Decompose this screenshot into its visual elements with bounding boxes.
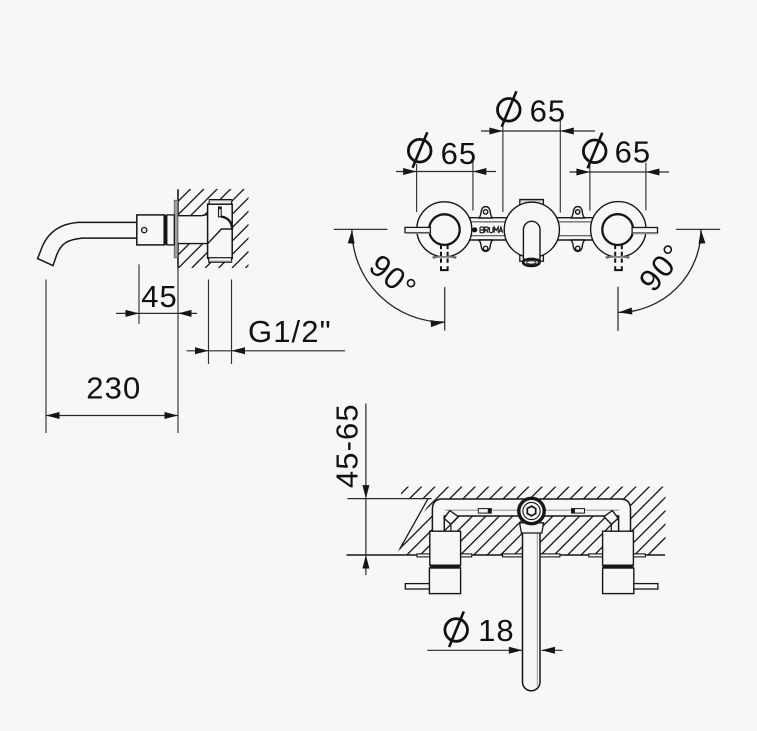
spout tube with curved outlet xyxy=(38,222,137,265)
tube mid gray line xyxy=(445,509,519,511)
dimension 230 xyxy=(46,415,178,417)
svg-text:G1/2": G1/2" xyxy=(248,314,332,349)
middle rosette circle xyxy=(504,202,559,257)
diameter symbol left xyxy=(408,132,431,168)
dimension G1/2" xyxy=(187,350,346,352)
union bracket trapezoid xyxy=(520,523,544,533)
left joint band xyxy=(430,565,461,568)
middle spout tube (front) xyxy=(523,221,540,261)
left clamp detail xyxy=(478,509,491,513)
right lever (plan) xyxy=(634,584,658,589)
set screw xyxy=(142,228,147,233)
right joint band xyxy=(603,565,634,568)
wall hatching below manifold (plan view) xyxy=(340,486,717,555)
diameter symbol 18 xyxy=(445,612,468,648)
block divider (thick ring) xyxy=(164,215,167,245)
spout tube (plan, going down) xyxy=(523,532,541,691)
finished wall line xyxy=(347,554,666,556)
bleed nipple on body xyxy=(219,207,222,217)
right hidden lever (dashed) xyxy=(615,245,622,270)
left lever xyxy=(405,227,430,232)
left plate corner bevels xyxy=(433,256,456,258)
diameter symbol middle xyxy=(498,91,521,127)
svg-text:45: 45 xyxy=(141,279,178,314)
left lever (plan) xyxy=(405,584,429,589)
left hidden lever (dashed) xyxy=(441,245,448,270)
right bracket screw holes xyxy=(576,210,580,251)
wall hatching above manifold (plan view) xyxy=(340,486,717,555)
left handle body (plan) xyxy=(429,568,460,594)
left 90 degree arc xyxy=(352,229,445,322)
right funnel xyxy=(604,511,618,525)
extension line (45 left) xyxy=(138,264,140,324)
left valve body xyxy=(430,531,461,565)
right mounting bracket ears xyxy=(571,207,586,252)
manifold tube (staple shape) xyxy=(432,499,630,531)
wall hatching (side view) xyxy=(85,188,326,268)
right handle body (plan) xyxy=(603,568,634,594)
wall break line (left) xyxy=(400,498,429,549)
right rosette circle xyxy=(591,202,646,257)
dimension line left diameter 65 xyxy=(396,171,496,173)
middle rosette plate (plan) xyxy=(503,554,560,557)
manifold bar xyxy=(444,218,619,240)
block rear section xyxy=(167,215,175,245)
left handle inner circle xyxy=(429,214,460,245)
right neck line xyxy=(610,524,612,531)
extension line (wall face, 45/230) xyxy=(177,265,179,434)
middle top tab xyxy=(520,200,544,206)
left bracket screw holes xyxy=(483,210,487,251)
right clamp detail xyxy=(572,509,585,513)
brand logo on bar xyxy=(472,227,477,232)
extension line (spout tip, 230) xyxy=(45,280,47,434)
right 90 degree dimension: reference lines xyxy=(676,228,720,230)
hex socket xyxy=(527,506,535,516)
wall flange (escutcheon) xyxy=(174,200,178,258)
left neck line xyxy=(450,524,452,531)
dimension 45 xyxy=(116,312,197,314)
gray plate edges under circles xyxy=(433,256,457,258)
union nut circle xyxy=(519,498,544,523)
dimension line right diameter 65 xyxy=(570,171,670,173)
extension lines right diameter xyxy=(589,163,591,211)
left 90 degree dimension: reference lines xyxy=(334,228,388,230)
left funnel xyxy=(444,511,458,525)
right lever xyxy=(632,228,657,234)
wall face line xyxy=(177,189,179,267)
svg-text:65: 65 xyxy=(530,94,567,129)
embedded valve body: top cap xyxy=(209,200,231,205)
right rosette plate (plan) xyxy=(589,554,646,557)
diameter symbol right xyxy=(583,133,606,169)
right handle inner circle xyxy=(602,214,633,245)
left rosette plate (plan) xyxy=(417,554,472,557)
left mounting bracket ears xyxy=(478,207,493,252)
internal channel arc xyxy=(221,217,232,229)
svg-text:230: 230 xyxy=(86,370,141,405)
svg-text:65: 65 xyxy=(615,135,652,170)
diameter 18 dimension xyxy=(427,649,522,651)
dimension line middle diameter 65 xyxy=(481,130,595,132)
extension lines middle diameter xyxy=(502,121,504,212)
middle bottom plate xyxy=(520,255,544,261)
embedded valve body: bottom cap xyxy=(209,258,232,263)
right 90 degree arc xyxy=(618,229,701,312)
left rosette circle xyxy=(417,202,472,257)
svg-text:65: 65 xyxy=(441,136,478,171)
extension line (G1/2 right) xyxy=(231,280,233,365)
spout body block xyxy=(137,215,164,245)
svg-text:45-65: 45-65 xyxy=(329,403,364,488)
embedded valve body: main body xyxy=(208,204,233,258)
45-65 dimension xyxy=(365,404,367,576)
extension line (G1/2 left) xyxy=(208,280,210,365)
extension lines left diameter xyxy=(416,164,418,212)
right valve body xyxy=(603,531,634,565)
chamfer lines under channel xyxy=(208,229,233,244)
svg-text:18: 18 xyxy=(478,613,515,648)
right plate corner bevels xyxy=(606,256,629,258)
in-wall connection tube (white over hatch) xyxy=(178,216,208,244)
spout outlet xyxy=(524,259,539,261)
min-depth extension line xyxy=(347,498,431,500)
